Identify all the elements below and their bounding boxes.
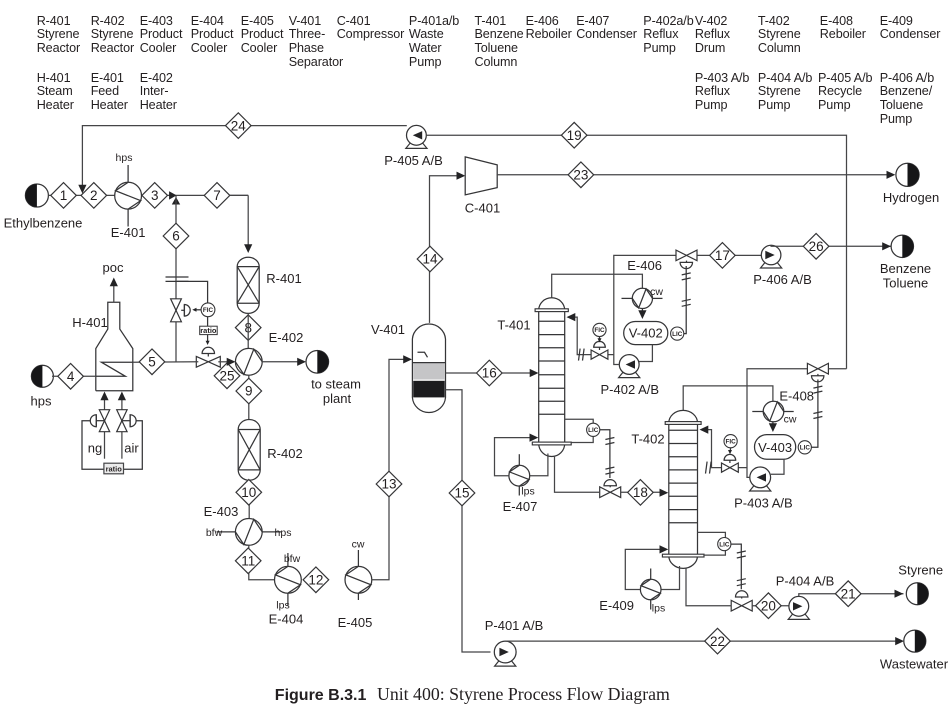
wire FIC to valve actuator: [192, 308, 201, 312]
bottoms valve (T-401): [600, 487, 621, 498]
wire FIC to ratio box: [207, 317, 209, 326]
wire T-401 overhead to E-406: [552, 274, 643, 297]
reflux break ticks (T-402): [706, 462, 712, 474]
label lps (E-407): [521, 486, 534, 498]
wire poc stack line: [110, 278, 118, 303]
wire ethylbenzene feed line: [48, 195, 248, 249]
sink Hydrogen: [896, 163, 919, 186]
wire E-407 suction: [530, 454, 548, 476]
bottoms valve actuator (T-401): [604, 480, 616, 488]
svg-text:T-401: T-401: [497, 318, 530, 333]
stream tag 3: [142, 183, 168, 209]
wire T-402 reflux line: [700, 426, 748, 468]
svg-text:3: 3: [151, 188, 159, 203]
label E-406: [627, 258, 662, 273]
stream tag 16: [477, 360, 503, 386]
controller FIC (ratio loop): [201, 303, 215, 317]
svg-text:21: 21: [841, 586, 856, 601]
svg-text:12: 12: [308, 573, 323, 588]
furnace H-401 outline: [96, 302, 133, 391]
condenser E-406: [622, 288, 663, 308]
column T-401: [532, 298, 571, 457]
level controller LIC (V-402): [671, 327, 684, 340]
wire R-401 to E-402: [247, 313, 249, 348]
figure caption: [275, 684, 670, 704]
wire valve to E-402 with arrow: [218, 358, 235, 366]
reboiler E-409: [640, 569, 661, 610]
svg-text:Ethylbenzene: Ethylbenzene: [4, 216, 83, 231]
label P-405 A/B: [384, 153, 443, 168]
svg-text:hps: hps: [116, 152, 133, 164]
level controller LIC (T-402): [718, 538, 731, 551]
label C-401: [465, 200, 500, 215]
reactor R-401: [237, 257, 259, 313]
wire E-405 to V-401: [372, 355, 412, 580]
svg-text:cw: cw: [784, 413, 797, 425]
wire FIC stem: [598, 337, 602, 343]
label V-401: [371, 322, 405, 337]
wire E-402 down to R-402: [248, 375, 250, 419]
svg-text:E-407: E-407: [503, 499, 538, 514]
stream tag 21: [835, 581, 861, 607]
svg-text:19: 19: [567, 128, 582, 143]
svg-text:R-402: R-402: [267, 446, 302, 461]
svg-text:LIC: LIC: [672, 331, 683, 338]
wire C-401 to hydrogen: [497, 171, 896, 179]
wire wastewater line 22: [505, 637, 904, 645]
wire V-401 water leg to P-401: [446, 390, 491, 652]
wire LIC signal to bottoms valve: [600, 430, 615, 478]
stream tag 20: [756, 593, 782, 619]
svg-text:10: 10: [241, 485, 256, 500]
recycle valve actuator: [812, 374, 824, 382]
wire R-402 to E-403: [248, 480, 250, 518]
svg-text:bfw: bfw: [284, 553, 301, 565]
svg-text:Hydrogen: Hydrogen: [883, 190, 939, 205]
svg-text:V-402: V-402: [629, 326, 663, 341]
svg-text:FIC: FIC: [594, 327, 605, 334]
wire recycle valve to line19 corner: [828, 368, 846, 370]
stream tag 26: [803, 234, 829, 260]
label poc: [103, 260, 124, 275]
label cw (E-405): [352, 539, 365, 551]
svg-text:LIC: LIC: [800, 445, 811, 452]
ng valve actuator: [90, 415, 104, 427]
reactor R-402: [238, 420, 260, 481]
sink Benzene Toluene: [891, 235, 913, 257]
svg-text:T-402: T-402: [631, 432, 664, 447]
label bfw (E-404): [284, 553, 301, 565]
svg-text:P-402 A/B: P-402 A/B: [601, 382, 660, 397]
column T-402: [662, 410, 704, 568]
stream tag 10: [236, 480, 262, 506]
reflux control valve FIC (T-401): [591, 350, 608, 359]
svg-text:C-401: C-401: [465, 200, 500, 215]
svg-text:ng: ng: [88, 441, 102, 456]
stream tag 1: [51, 183, 77, 209]
svg-text:Wastewater: Wastewater: [880, 657, 949, 672]
label P-404 A/B: [776, 574, 835, 589]
controller FIC (T-402 reflux): [724, 435, 737, 448]
pump P-403 A/B: [750, 467, 771, 491]
svg-text:11: 11: [241, 554, 255, 569]
svg-text:P-401 A/B: P-401 A/B: [485, 618, 544, 633]
svg-text:Unit 400: Styrene Process Flow: Unit 400: Styrene Process Flow Diagram: [377, 684, 670, 704]
svg-text:plant: plant: [323, 391, 352, 406]
pump P-401 A/B: [494, 641, 516, 666]
valve-25 actuator dome: [202, 347, 214, 356]
label Ethylbenzene: [4, 216, 83, 231]
wire P-404 to styrene product: [799, 590, 904, 598]
svg-text:15: 15: [454, 486, 469, 501]
reflux drum V-403: [755, 435, 796, 460]
svg-text:E-402: E-402: [269, 330, 304, 345]
wire line 19 from recycle valve to P-405: [426, 135, 846, 369]
stream tag 15: [449, 480, 475, 506]
stream tag 13: [376, 471, 402, 497]
svg-text:6: 6: [172, 229, 180, 244]
sink Styrene: [906, 583, 928, 605]
distillate control valve (T-401): [676, 250, 697, 261]
wire LIC signal to bottoms valve (T-402): [731, 544, 746, 589]
svg-text:P-403 A/B: P-403 A/B: [734, 496, 793, 511]
svg-text:7: 7: [213, 188, 221, 203]
stream tag 24: [226, 113, 252, 139]
svg-text:14: 14: [422, 252, 438, 267]
svg-text:20: 20: [761, 598, 776, 613]
wire T-401 bottoms to T-402: [555, 456, 669, 497]
svg-text:FIC: FIC: [726, 438, 737, 445]
wire T-401 reflux line: [567, 313, 614, 355]
wire ratio to valve-25 actuator: [206, 335, 210, 345]
reflux valve actuator: [594, 341, 606, 350]
reflux break ticks (T-401): [579, 349, 585, 361]
wire E-402 to steam plant: [262, 358, 306, 366]
svg-text:26: 26: [809, 239, 824, 254]
wire LIC signal to distillate valve: [682, 266, 691, 334]
orifice flow element: [166, 277, 189, 281]
distillate valve actuator: [680, 261, 692, 269]
stream tag 2: [81, 183, 107, 209]
ratio box (ng/air): [104, 463, 124, 474]
label ng: [88, 441, 102, 456]
svg-text:E-409: E-409: [599, 598, 634, 613]
wire V-403 to P-403: [771, 459, 784, 474]
wire V-401 top to C-401: [430, 172, 466, 323]
label H-401: [72, 315, 107, 330]
recycle valve (to line 19): [807, 363, 828, 374]
stream tag 8: [235, 315, 261, 341]
stream tag 11: [235, 548, 261, 574]
wire E-409 return to column: [625, 545, 668, 589]
svg-text:LIC: LIC: [588, 427, 599, 434]
label E-408: [779, 388, 814, 403]
svg-text:V-403: V-403: [758, 440, 792, 455]
svg-text:23: 23: [573, 168, 588, 183]
pump P-402 A/B: [619, 355, 640, 378]
svg-text:E-408: E-408: [779, 388, 814, 403]
wire P-402 discharge riser: [614, 255, 676, 364]
svg-text:bfw: bfw: [206, 527, 223, 539]
sink to steam plant: [306, 351, 329, 374]
wire steam leg from junction down to steam line: [175, 195, 177, 362]
reflux valve actuator (T-402): [724, 454, 736, 463]
valve actuator diaphragm: [181, 305, 190, 317]
control valve on steam mix line: [196, 356, 220, 367]
label hps under circle: [31, 394, 52, 409]
svg-text:Styrene: Styrene: [898, 563, 943, 578]
label P-403 A/B: [734, 496, 793, 511]
heat exchanger E-403 (product cooler): [217, 519, 282, 546]
bottoms valve actuator (T-402): [736, 591, 748, 599]
svg-text:H-401: H-401: [72, 315, 107, 330]
svg-text:P-405 A/B: P-405 A/B: [384, 153, 443, 168]
condenser E-408: [752, 401, 793, 422]
label P-402 A/B: [601, 382, 660, 397]
svg-text:E-404: E-404: [269, 612, 304, 627]
svg-text:FIC: FIC: [203, 307, 214, 314]
svg-text:22: 22: [710, 634, 725, 649]
stream tag 5: [139, 349, 165, 375]
svg-text:1: 1: [60, 188, 68, 203]
svg-text:hps: hps: [275, 527, 292, 539]
svg-text:18: 18: [633, 485, 648, 500]
svg-text:13: 13: [381, 477, 396, 492]
svg-text:16: 16: [482, 366, 497, 381]
level controller LIC (T-401): [587, 423, 600, 436]
stream tag 6: [163, 223, 189, 249]
wire T-402 overhead to E-408: [683, 386, 773, 410]
wire T-402 bottoms to P-404: [686, 568, 789, 606]
stream tag 25: [214, 363, 240, 389]
svg-text:cw: cw: [650, 286, 663, 298]
controller FIC (T-401 reflux): [593, 323, 606, 336]
pump P-404 A/B: [788, 596, 809, 619]
level controller LIC (V-403): [798, 441, 811, 454]
wire E-408 to V-403: [769, 422, 777, 432]
steam control valve (vertical): [171, 299, 182, 322]
label T-402: [631, 432, 664, 447]
stream tag 22: [705, 628, 731, 654]
label T-401: [497, 318, 530, 333]
stream tag 14: [417, 246, 443, 272]
stream tag 23: [568, 162, 594, 188]
air valve: [117, 410, 127, 432]
stream tag 9: [236, 378, 262, 404]
label E-402: [269, 330, 304, 345]
svg-text:25: 25: [219, 369, 234, 384]
stream tag 12: [303, 567, 329, 593]
wire P-403 discharge riser to recycle valve: [747, 369, 808, 478]
wire furnace outlet to steam line: [133, 361, 199, 363]
svg-text:air: air: [124, 441, 139, 456]
svg-text:R-401: R-401: [266, 271, 301, 286]
svg-text:LIC: LIC: [719, 541, 730, 548]
svg-text:Benzene: Benzene: [880, 261, 931, 276]
sink Wastewater: [904, 630, 926, 652]
stream tag 17: [710, 243, 736, 269]
wire V-401 organic to T-401: [446, 369, 539, 377]
wire ng pipe with arrow: [100, 392, 108, 459]
heat exchanger E-405 (product cooler): [345, 550, 372, 600]
reflux drum V-402: [624, 322, 668, 345]
svg-text:E-401: E-401: [111, 225, 146, 240]
label lps (E-404): [276, 600, 289, 612]
wire 7 to R-401 riser: [230, 194, 248, 196]
wire distillate valve to pump P-406: [697, 254, 761, 256]
label E-401: [111, 225, 146, 240]
label E-403: [204, 504, 239, 519]
wire recycle line stream 24 (P-405 discharge to feed junction): [78, 126, 407, 194]
label R-402: [267, 446, 302, 461]
svg-text:2: 2: [90, 188, 98, 203]
wire hps to furnace: [52, 375, 96, 377]
wire E-409 suction: [661, 566, 680, 590]
svg-text:E-405: E-405: [338, 615, 373, 630]
label cw (E-408): [784, 413, 797, 425]
reboiler E-407: [509, 454, 530, 495]
heat exchanger E-401 (feed heater): [115, 165, 142, 227]
wire arrow into R-401: [244, 244, 252, 253]
pump P-405 A/B: [406, 125, 427, 148]
svg-text:E-406: E-406: [627, 258, 662, 273]
stream tag 7: [204, 183, 230, 209]
label Benzene Toluene: [880, 261, 931, 291]
svg-text:cw: cw: [352, 539, 365, 551]
label P-401 A/B: [485, 618, 544, 633]
wire E-403 to E-404: [249, 545, 275, 580]
svg-text:Figure B.3.1: Figure B.3.1: [275, 687, 367, 704]
label hps (E-403): [275, 527, 292, 539]
svg-text:lps: lps: [652, 603, 665, 615]
wire T-401 level bridle: [565, 419, 594, 442]
separator V-401: [412, 324, 445, 412]
reflux control valve FIC (T-402): [722, 463, 739, 472]
svg-text:E-403: E-403: [204, 504, 239, 519]
svg-text:24: 24: [231, 118, 247, 133]
label bfw (E-403): [206, 527, 223, 539]
ng valve: [99, 410, 109, 432]
wire V-402 to P-402: [639, 345, 652, 362]
wire P-406 to benzene-toluene product: [771, 242, 897, 250]
svg-text:17: 17: [715, 248, 730, 263]
label air: [124, 441, 139, 456]
label E-409: [599, 598, 634, 613]
svg-text:4: 4: [67, 369, 75, 384]
label P-406 A/B: [753, 272, 812, 287]
svg-text:lps: lps: [276, 600, 289, 612]
label R-401: [266, 271, 301, 286]
stream tag 4: [58, 364, 84, 390]
svg-text:lps: lps: [521, 486, 534, 498]
feed source hps to furnace: [31, 365, 53, 387]
svg-text:Toluene: Toluene: [883, 276, 929, 291]
label E-405: [338, 615, 373, 630]
label lps (E-409): [652, 603, 665, 615]
svg-text:5: 5: [148, 355, 156, 370]
svg-text:hps: hps: [31, 394, 52, 409]
label hps above E-401: [116, 152, 133, 164]
heat exchanger E-402 (inter-heater): [235, 348, 262, 375]
svg-text:ratio: ratio: [200, 326, 217, 335]
air valve actuator: [122, 415, 136, 427]
svg-text:ratio: ratio: [106, 465, 123, 474]
label Styrene: [898, 563, 943, 578]
wire signal orifice to FIC: [177, 281, 208, 303]
feed source Ethylbenzene: [25, 184, 48, 207]
wire T-402 level bridle: [698, 532, 726, 555]
furnace coil: [96, 362, 133, 376]
label E-407: [503, 499, 538, 514]
wire E-407 return to column: [495, 434, 539, 476]
stream tag 18: [628, 480, 654, 506]
wire E-406 to V-402: [638, 309, 646, 320]
wire ratio bracket: [82, 421, 142, 470]
label Wastewater: [880, 657, 949, 672]
wire air pipe with arrow: [118, 392, 126, 459]
stream tag 19: [561, 122, 587, 148]
svg-text:P-406 A/B: P-406 A/B: [753, 272, 812, 287]
wire LIC signal to recycle valve: [811, 380, 822, 448]
svg-text:to steam: to steam: [311, 377, 361, 392]
svg-text:P-404 A/B: P-404 A/B: [776, 574, 835, 589]
heat exchanger E-404 (product cooler): [275, 553, 302, 606]
label Hydrogen: [883, 190, 939, 205]
wire FIC stem (T-402): [728, 448, 732, 454]
compressor C-401: [465, 157, 497, 195]
svg-text:poc: poc: [103, 260, 124, 275]
ratio controller box: [200, 326, 218, 335]
bottoms valve (T-402): [731, 600, 752, 611]
pump P-406 A/B: [761, 245, 782, 268]
label to steam plant: [311, 377, 361, 407]
label cw (E-406): [650, 286, 663, 298]
junction arrow (steam joins feed): [169, 191, 180, 204]
svg-text:9: 9: [245, 384, 253, 399]
label E-404: [269, 612, 304, 627]
svg-text:V-401: V-401: [371, 322, 405, 337]
